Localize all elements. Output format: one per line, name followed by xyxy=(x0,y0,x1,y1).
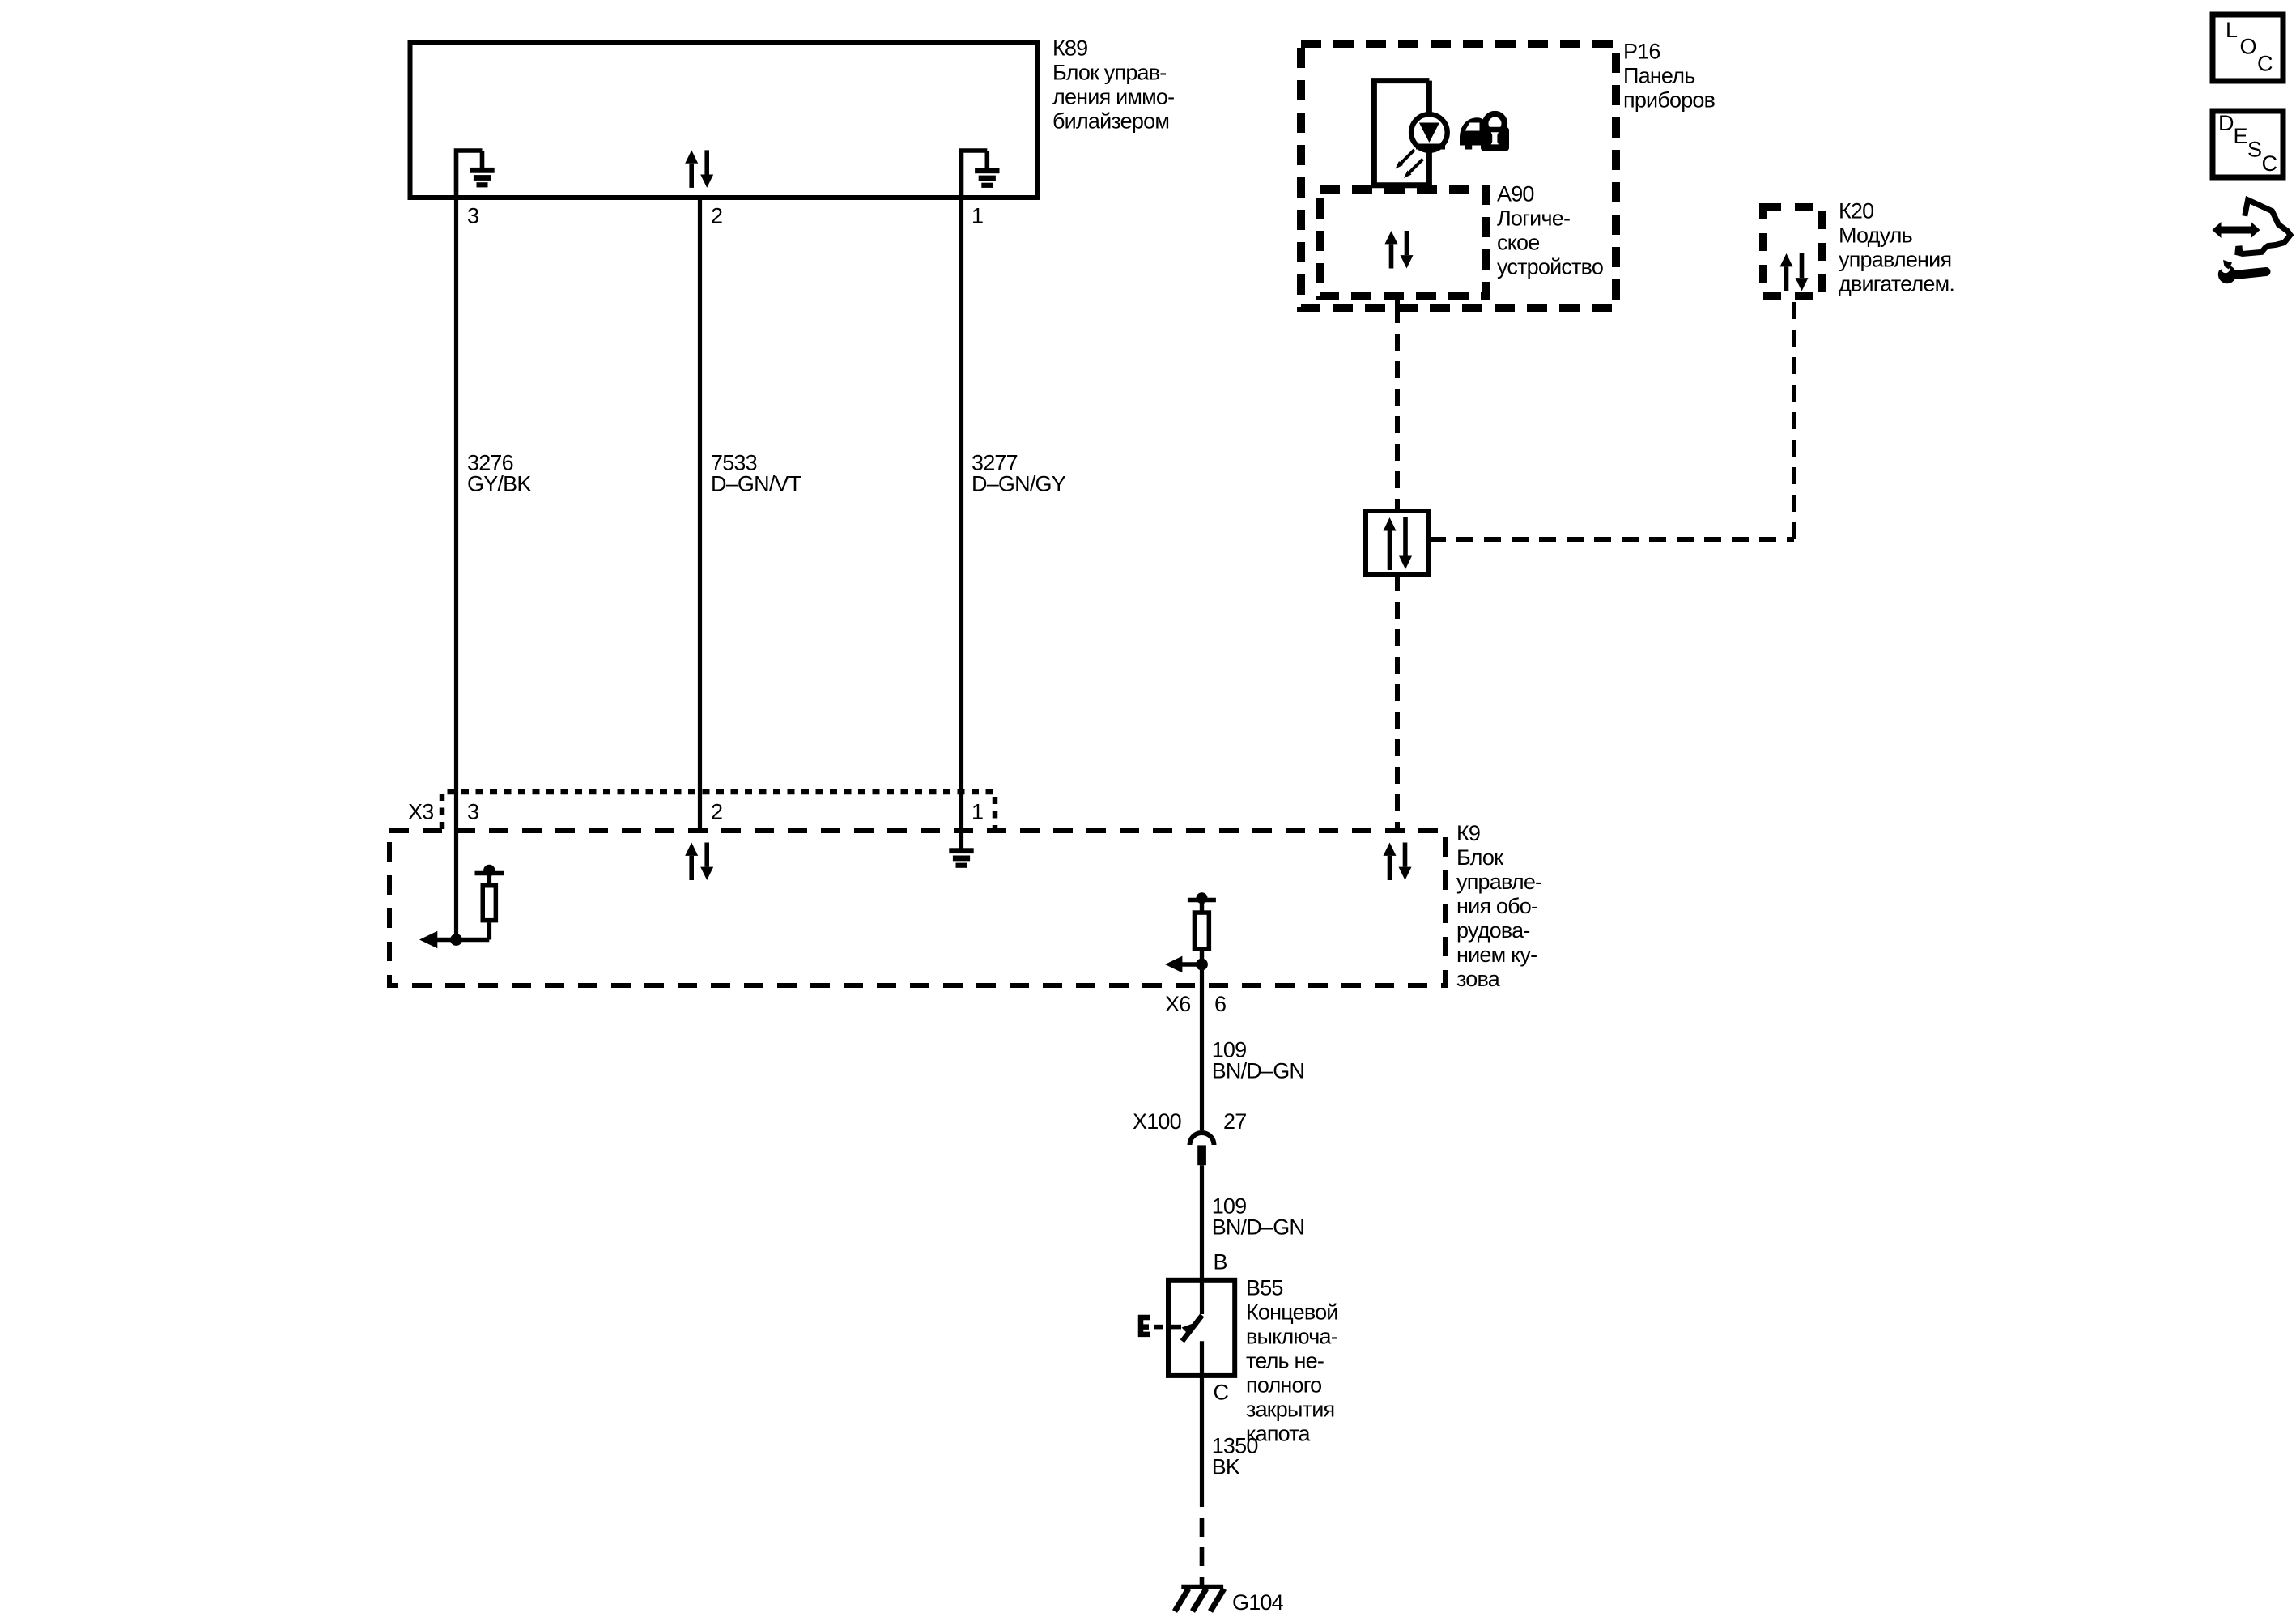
svg-text:тель не-: тель не- xyxy=(1246,1349,1324,1373)
svg-text:BN/D–GN: BN/D–GN xyxy=(1212,1059,1304,1083)
svg-text:Панель: Панель xyxy=(1623,63,1694,87)
svg-text:E: E xyxy=(2234,124,2247,148)
svg-text:D: D xyxy=(2218,111,2234,135)
svg-text:2: 2 xyxy=(711,800,722,824)
svg-text:1: 1 xyxy=(972,800,983,824)
svg-text:L: L xyxy=(2226,18,2238,42)
svg-text:К20: К20 xyxy=(1839,198,1873,223)
svg-text:приборов: приборов xyxy=(1623,87,1716,112)
svg-text:рудова-: рудова- xyxy=(1456,918,1530,943)
svg-text:Блок управ-: Блок управ- xyxy=(1052,61,1167,85)
svg-text:3: 3 xyxy=(467,800,478,824)
svg-text:Блок: Блок xyxy=(1456,845,1503,870)
svg-text:X6: X6 xyxy=(1165,992,1190,1016)
svg-text:К89: К89 xyxy=(1052,36,1087,61)
svg-text:BK: BK xyxy=(1212,1455,1240,1479)
svg-text:X3: X3 xyxy=(408,800,433,824)
svg-text:B: B xyxy=(1214,1249,1227,1274)
svg-text:К9: К9 xyxy=(1456,821,1480,845)
svg-text:устройство: устройство xyxy=(1497,255,1603,279)
svg-text:Модуль: Модуль xyxy=(1839,223,1912,247)
svg-text:G104: G104 xyxy=(1232,1590,1284,1615)
svg-text:закрытия: закрытия xyxy=(1246,1398,1334,1422)
svg-text:C: C xyxy=(1214,1381,1229,1405)
svg-text:билайзером: билайзером xyxy=(1052,109,1169,134)
svg-text:ское: ское xyxy=(1497,231,1539,255)
svg-text:выключа-: выключа- xyxy=(1246,1325,1337,1349)
svg-text:O: O xyxy=(2240,35,2256,59)
svg-text:управления: управления xyxy=(1839,247,1951,271)
svg-text:BN/D–GN: BN/D–GN xyxy=(1212,1215,1304,1240)
svg-text:A90: A90 xyxy=(1497,182,1534,206)
svg-text:D–GN/GY: D–GN/GY xyxy=(972,472,1066,496)
svg-text:B55: B55 xyxy=(1246,1276,1283,1300)
svg-text:ния обо-: ния обо- xyxy=(1456,894,1537,918)
svg-text:2: 2 xyxy=(711,204,722,228)
svg-text:зова: зова xyxy=(1456,967,1501,991)
svg-text:GY/BK: GY/BK xyxy=(467,472,531,496)
svg-text:Логиче-: Логиче- xyxy=(1497,206,1570,231)
svg-text:полного: полного xyxy=(1246,1373,1321,1398)
svg-text:6: 6 xyxy=(1214,992,1226,1016)
svg-text:P16: P16 xyxy=(1623,39,1660,63)
svg-text:1: 1 xyxy=(972,204,983,228)
svg-text:ления иммо-: ления иммо- xyxy=(1052,85,1174,109)
svg-text:S: S xyxy=(2247,138,2261,162)
svg-text:C: C xyxy=(2257,52,2273,76)
svg-text:нием ку-: нием ку- xyxy=(1456,943,1537,967)
svg-text:Концевой: Концевой xyxy=(1246,1300,1338,1325)
svg-text:двигателем.: двигателем. xyxy=(1839,271,1954,296)
svg-text:D–GN/VT: D–GN/VT xyxy=(711,472,801,496)
svg-text:управле-: управле- xyxy=(1456,870,1541,894)
svg-text:27: 27 xyxy=(1223,1109,1246,1134)
svg-text:C: C xyxy=(2262,151,2277,176)
svg-text:X100: X100 xyxy=(1133,1109,1181,1134)
svg-text:3: 3 xyxy=(467,204,478,228)
